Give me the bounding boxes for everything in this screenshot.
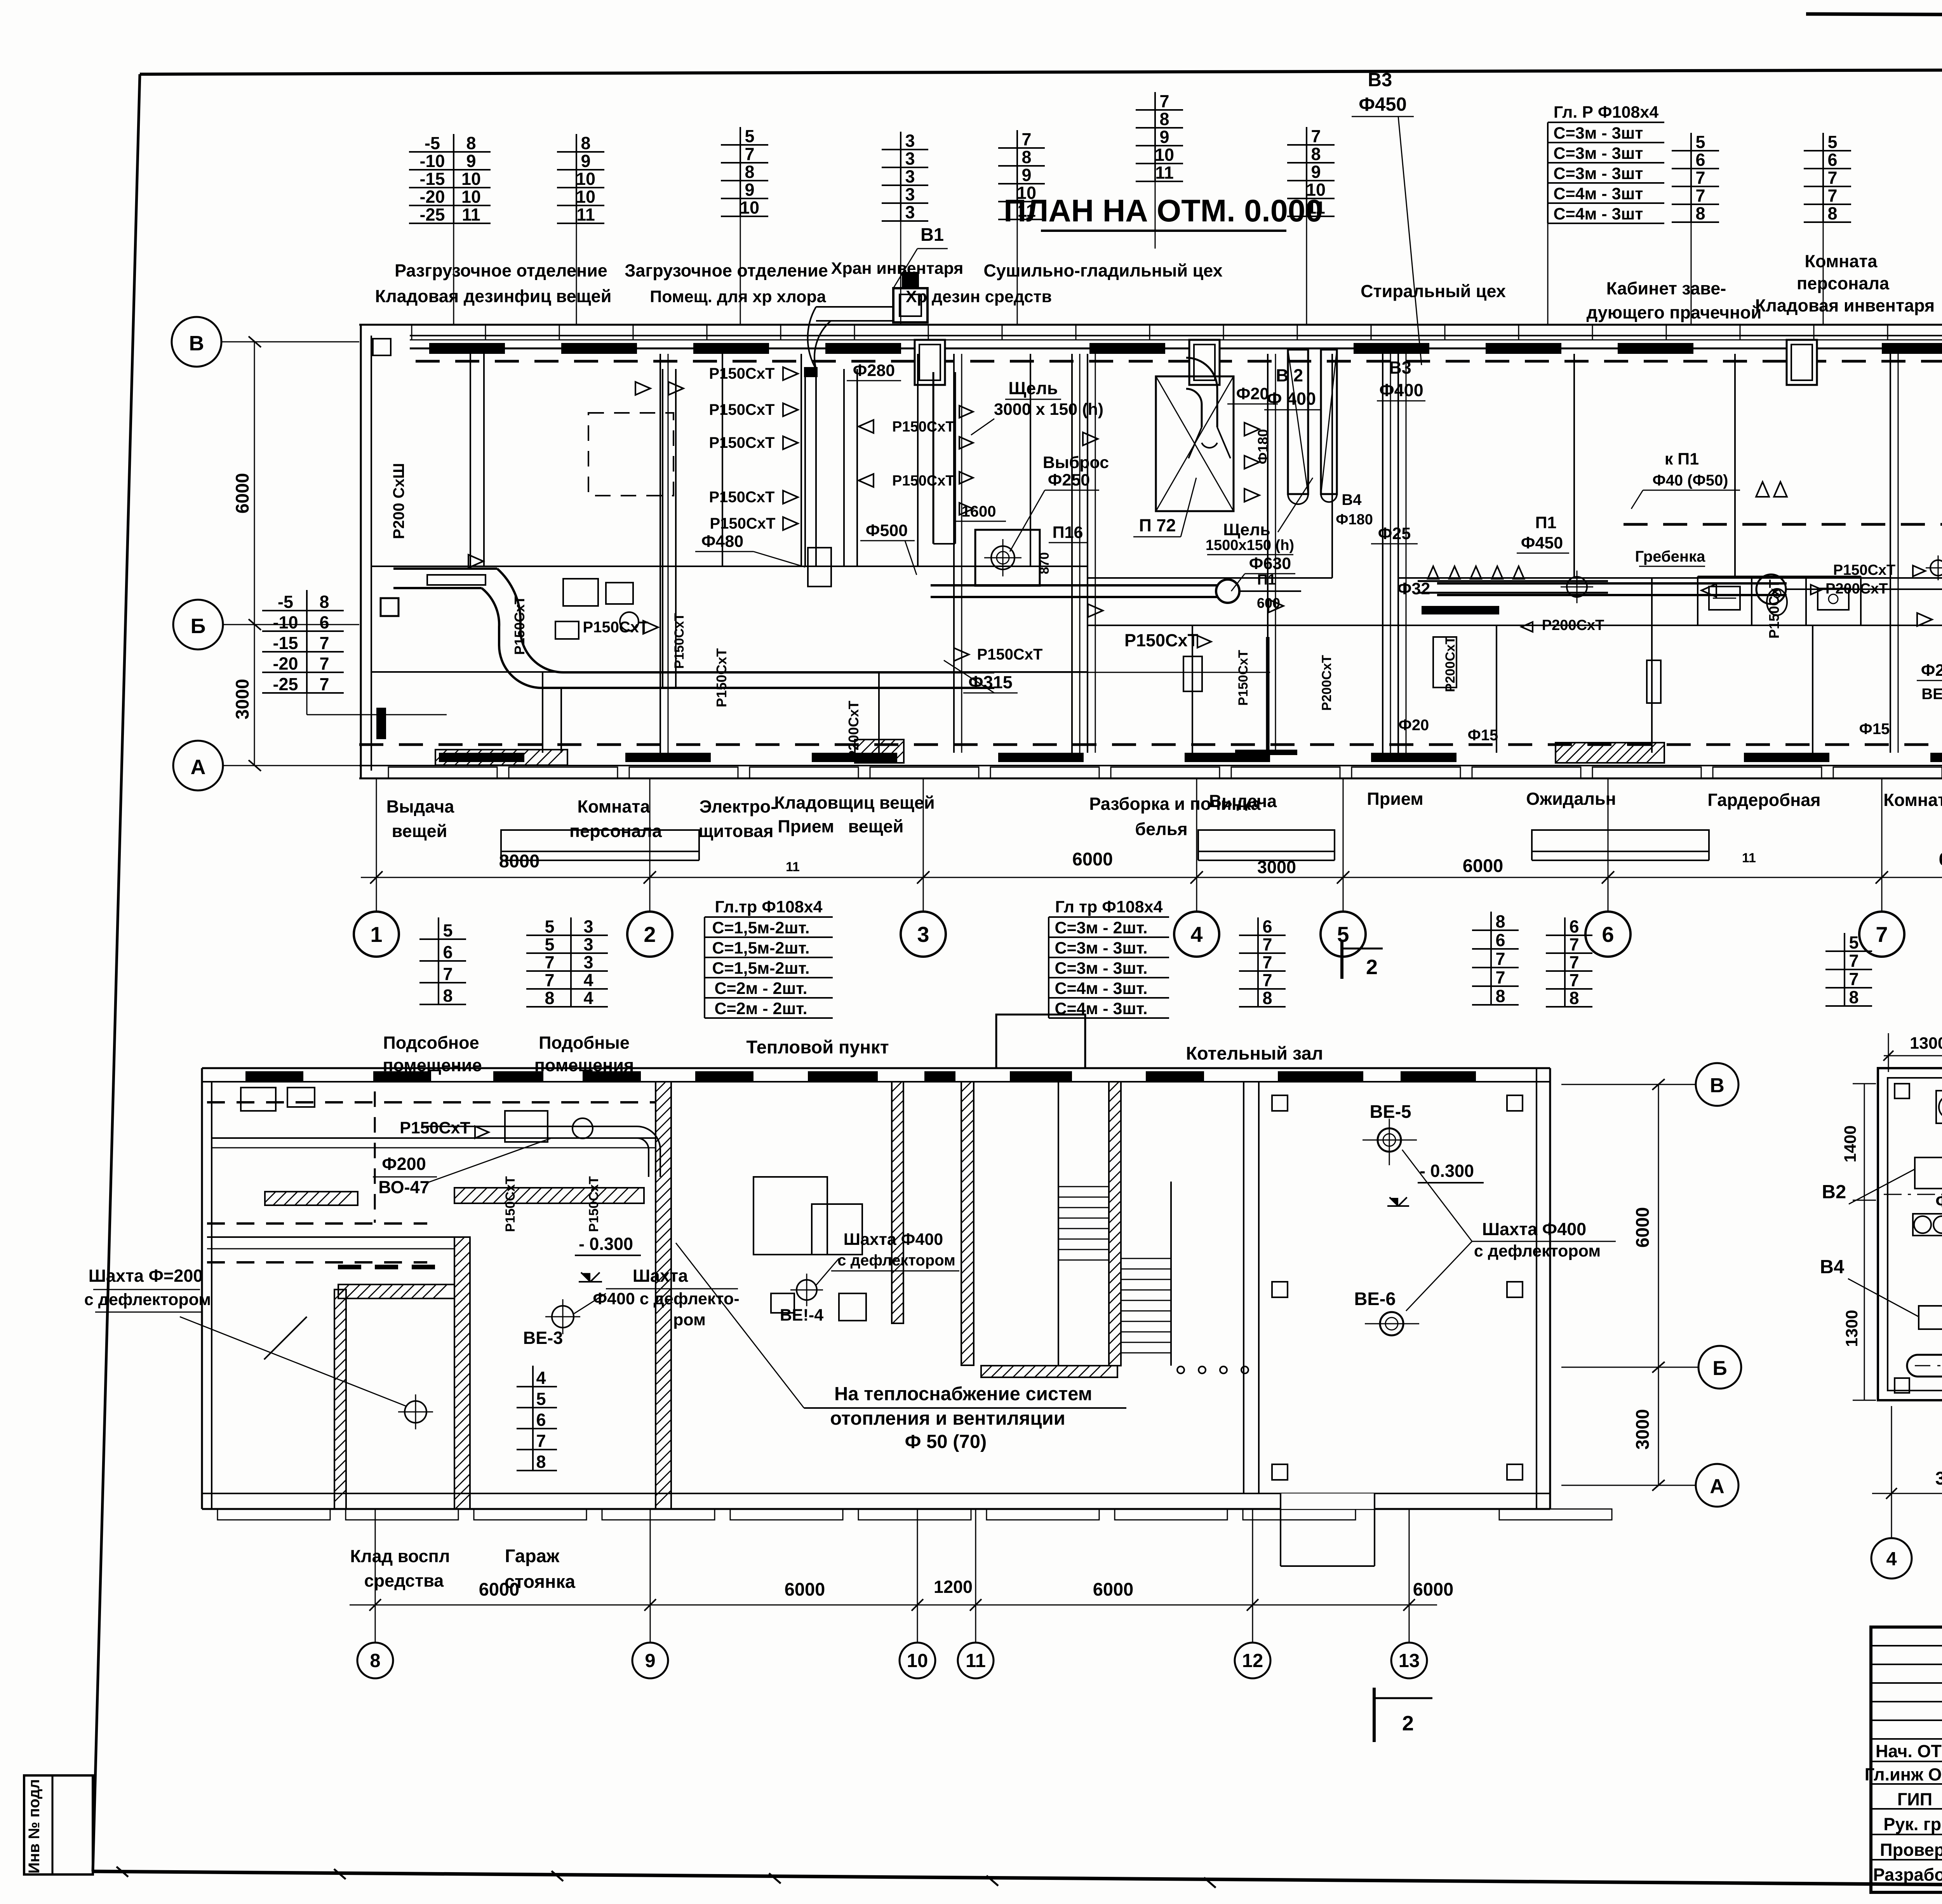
main floor plan 0.000 <box>359 324 1942 326</box>
dimension ladders above plan <box>409 151 491 153</box>
svg-text:8: 8 <box>745 162 754 182</box>
title block <box>1871 1627 1942 1892</box>
svg-text:1300: 1300 <box>1843 1310 1861 1347</box>
svg-text:Ф20: Ф20 <box>1399 717 1429 734</box>
svg-text:Гардеробная: Гардеробная <box>1707 790 1820 810</box>
svg-text:Ф450: Ф450 <box>1359 94 1407 115</box>
svg-text:7: 7 <box>1021 129 1031 149</box>
svg-text:Разгрузочное отделение: Разгрузочное отделение <box>395 261 607 280</box>
svg-text:А: А <box>1710 1475 1724 1498</box>
svg-text:С=3м - 2шт.: С=3м - 2шт. <box>1055 919 1147 937</box>
svg-text:7: 7 <box>745 144 754 164</box>
svg-text:-5: -5 <box>425 133 440 153</box>
svg-text:отопления и вентиляции: отопления и вентиляции <box>830 1408 1065 1429</box>
svg-text:6: 6 <box>1495 930 1505 950</box>
svg-text:Р150СхТ: Р150СхТ <box>586 1176 601 1232</box>
svg-text:С=3м - 3шт: С=3м - 3шт <box>1554 164 1643 183</box>
svg-text:Нач. ОТП: Нач. ОТП <box>1876 1741 1942 1761</box>
svg-text:Гл.тр Ф108х4: Гл.тр Ф108х4 <box>715 898 822 916</box>
svg-text:9: 9 <box>645 1650 655 1671</box>
svg-text:Р200СхТ: Р200СхТ <box>846 701 861 760</box>
svg-text:1400: 1400 <box>1841 1125 1860 1163</box>
svg-text:2: 2 <box>644 922 656 947</box>
svg-text:Прием: Прием <box>778 816 834 836</box>
B2 unit <box>1915 1157 1942 1189</box>
svg-text:С=3м - 3шт: С=3м - 3шт <box>1554 144 1643 163</box>
svg-text:10: 10 <box>461 187 481 207</box>
svg-text:3: 3 <box>583 935 593 954</box>
svg-text:7: 7 <box>1695 168 1705 188</box>
svg-text:ВЕ: ВЕ <box>1921 686 1942 703</box>
svg-text:11: 11 <box>462 205 480 225</box>
svg-text:7: 7 <box>1827 168 1837 188</box>
svg-text:Р150СхТ: Р150СхТ <box>1833 562 1896 578</box>
svg-text:П1: П1 <box>1535 513 1557 532</box>
svg-text:7: 7 <box>545 952 554 972</box>
column circles 8-13 <box>350 1605 1437 1606</box>
svg-text:3: 3 <box>905 202 915 222</box>
svg-text:В3: В3 <box>1389 358 1411 378</box>
svg-text:5: 5 <box>536 1389 546 1409</box>
svg-text:8: 8 <box>1569 988 1579 1008</box>
svg-text:-20: -20 <box>273 654 298 674</box>
svg-text:9: 9 <box>581 151 590 171</box>
svg-text:8000: 8000 <box>499 851 540 871</box>
svg-text:Загрузочное отделение: Загрузочное отделение <box>625 261 828 280</box>
svg-text:7: 7 <box>536 1431 546 1451</box>
svg-text:8: 8 <box>581 133 590 153</box>
svg-text:5: 5 <box>745 126 754 146</box>
svg-text:Б: Б <box>191 614 206 638</box>
svg-text:12: 12 <box>1242 1650 1263 1671</box>
stair vestibule protruding above <box>996 1015 1085 1068</box>
svg-text:3: 3 <box>905 149 915 169</box>
svg-text:ПЛАН НА ОТМ. 0.000: ПЛАН НА ОТМ. 0.000 <box>1004 193 1323 228</box>
svg-text:Ф315: Ф315 <box>968 672 1013 692</box>
svg-text:1600: 1600 <box>962 503 996 520</box>
svg-text:Ф250: Ф250 <box>1048 471 1090 489</box>
svg-text:11: 11 <box>1155 163 1174 183</box>
svg-text:11: 11 <box>576 205 595 225</box>
svg-text:-10: -10 <box>273 613 298 632</box>
svg-text:Гребенка: Гребенка <box>1635 548 1705 565</box>
svg-text:Р200СхТ: Р200СхТ <box>1443 636 1458 692</box>
svg-text:3000: 3000 <box>1257 857 1296 877</box>
svg-text:6000: 6000 <box>232 473 252 514</box>
svg-text:7: 7 <box>1876 922 1888 947</box>
svg-text:8: 8 <box>466 133 476 153</box>
lower-left plan <box>202 1067 1550 1069</box>
svg-text:Подсобное: Подсобное <box>383 1033 479 1053</box>
row markers В Б А <box>172 317 221 367</box>
svg-text:-10: -10 <box>419 151 445 171</box>
section mark 2 (top) <box>1340 940 1343 979</box>
svg-text:Хран инвентаря: Хран инвентаря <box>831 259 964 278</box>
bottom dimension line of top plan <box>361 877 1942 878</box>
svg-text:7: 7 <box>1311 126 1321 146</box>
corridor duct with S-bend <box>393 567 497 570</box>
svg-text:7: 7 <box>319 654 329 674</box>
svg-text:П16: П16 <box>1053 523 1083 542</box>
svg-text:7: 7 <box>545 970 554 990</box>
svg-text:10: 10 <box>1155 145 1174 165</box>
svg-text:Р150СхТ: Р150СхТ <box>710 515 776 532</box>
svg-text:Р150СхТ: Р150СхТ <box>400 1119 470 1137</box>
svg-text:Провер.: Провер. <box>1880 1840 1942 1860</box>
svg-text:3: 3 <box>583 952 593 972</box>
svg-text:В4: В4 <box>1342 491 1362 508</box>
bottom pipe <box>1907 1355 1942 1377</box>
svg-text:9: 9 <box>1021 165 1031 185</box>
svg-text:6: 6 <box>443 942 452 962</box>
svg-text:4: 4 <box>583 970 593 990</box>
svg-text:В 2: В 2 <box>1276 365 1303 385</box>
svg-text:10: 10 <box>740 198 759 218</box>
svg-text:с дефлектором: с дефлектором <box>84 1290 211 1309</box>
svg-text:Р150СхТ: Р150СхТ <box>892 419 955 435</box>
svg-text:3000: 3000 <box>1935 1468 1942 1488</box>
svg-text:щитовая: щитовая <box>699 821 774 841</box>
svg-text:Инв № подл: Инв № подл <box>26 1779 43 1873</box>
column circles 1-8 <box>376 877 377 912</box>
svg-text:вещей: вещей <box>392 821 447 841</box>
svg-text:8: 8 <box>1695 204 1705 223</box>
entrance porches <box>501 830 699 851</box>
svg-text:10: 10 <box>907 1650 928 1671</box>
svg-text:9: 9 <box>1311 162 1321 182</box>
svg-text:Котельный зал: Котельный зал <box>1186 1043 1323 1063</box>
svg-text:Тепловой пункт: Тепловой пункт <box>746 1037 889 1057</box>
svg-text:4: 4 <box>583 988 593 1008</box>
svg-text:С=4м - 3шт.: С=4м - 3шт. <box>1055 979 1147 998</box>
svg-text:С=4м - 3шт: С=4м - 3шт <box>1554 184 1643 203</box>
svg-text:Р150СхТ: Р150СхТ <box>672 613 687 669</box>
svg-text:9: 9 <box>1159 127 1169 147</box>
svg-text:Гл. Р Ф108х4: Гл. Р Ф108х4 <box>1554 103 1658 122</box>
svg-text:870: 870 <box>1037 552 1052 574</box>
svg-text:6000: 6000 <box>1093 1579 1134 1599</box>
svg-text:10: 10 <box>576 169 595 189</box>
svg-text:Комната: Комната <box>578 797 651 816</box>
svg-text:7: 7 <box>1849 969 1858 989</box>
svg-text:Кабинет заве-: Кабинет заве- <box>1606 278 1726 298</box>
svg-text:Ф400: Ф400 <box>1379 380 1423 400</box>
svg-text:11: 11 <box>786 860 800 874</box>
svg-text:-15: -15 <box>273 633 298 653</box>
svg-text:Ф20: Ф20 <box>1236 385 1269 403</box>
svg-text:ром: ром <box>673 1311 706 1329</box>
svg-text:персонала: персонала <box>1797 273 1890 293</box>
svg-text:Выдача: Выдача <box>1209 791 1277 811</box>
svg-text:Хр дезин средств: Хр дезин средств <box>906 287 1052 306</box>
svg-text:С=1,5м-2шт.: С=1,5м-2шт. <box>712 919 809 937</box>
svg-text:Ф180: Ф180 <box>1255 429 1271 465</box>
svg-text:7: 7 <box>443 964 452 984</box>
svg-text:Кладовщиц вещей: Кладовщиц вещей <box>774 793 934 813</box>
svg-text:Ф180: Ф180 <box>1336 512 1373 528</box>
svg-text:9: 9 <box>745 180 754 200</box>
svg-text:Кладовая дезинфиц вещей: Кладовая дезинфиц вещей <box>375 286 612 306</box>
svg-text:с дефлектором: с дефлектором <box>1474 1242 1601 1260</box>
svg-text:Р150СхТ: Р150СхТ <box>892 473 955 489</box>
svg-text:7: 7 <box>1262 970 1272 990</box>
svg-text:-20: -20 <box>419 187 445 207</box>
svg-text:5: 5 <box>443 921 452 940</box>
svg-text:Р200СхТ: Р200СхТ <box>1319 655 1334 711</box>
svg-text:ВЕ-5: ВЕ-5 <box>1369 1101 1411 1122</box>
svg-text:ВЕ-3: ВЕ-3 <box>523 1328 563 1348</box>
svg-text:Р150СхТ: Р150СхТ <box>503 1176 518 1232</box>
svg-text:Ф500: Ф500 <box>866 521 908 540</box>
svg-text:5: 5 <box>545 935 554 954</box>
svg-text:ГИП: ГИП <box>1897 1789 1932 1809</box>
svg-text:Щель: Щель <box>1223 520 1270 539</box>
svg-text:8: 8 <box>1495 986 1505 1006</box>
svg-text:6: 6 <box>1569 917 1579 936</box>
svg-text:4: 4 <box>1886 1549 1897 1570</box>
svg-text:6000: 6000 <box>1939 849 1942 869</box>
svg-text:7: 7 <box>1695 186 1705 205</box>
svg-text:Шахта Ф=200: Шахта Ф=200 <box>89 1266 203 1286</box>
svg-text:Ф15: Ф15 <box>1468 727 1498 744</box>
svg-text:6: 6 <box>1695 150 1705 170</box>
svg-text:вещей: вещей <box>848 816 904 836</box>
svg-text:7: 7 <box>319 633 329 653</box>
svg-text:3000 х 150 (h): 3000 х 150 (h) <box>994 400 1103 419</box>
svg-text:Ф400 с дефлекто-: Ф400 с дефлекто- <box>593 1290 739 1308</box>
svg-text:-15: -15 <box>419 169 445 189</box>
svg-text:к П1: к П1 <box>1665 450 1699 468</box>
svg-text:3000: 3000 <box>232 679 252 720</box>
svg-text:Выдача: Выдача <box>386 797 455 816</box>
svg-text:6: 6 <box>319 613 329 632</box>
svg-text:8: 8 <box>1021 147 1031 167</box>
svg-text:персонала: персонала <box>569 821 662 841</box>
svg-text:Щель: Щель <box>1008 378 1058 398</box>
svg-text:Шахта: Шахта <box>633 1266 688 1286</box>
svg-text:белья: белья <box>1135 819 1187 839</box>
svg-text:7: 7 <box>1827 186 1837 205</box>
svg-text:В3: В3 <box>1368 70 1392 91</box>
svg-text:7: 7 <box>1159 91 1169 111</box>
svg-text:11: 11 <box>1742 851 1756 865</box>
svg-text:ВЕ-6: ВЕ-6 <box>1354 1288 1396 1309</box>
svg-text:Р150СхТ: Р150СхТ <box>512 596 527 655</box>
svg-text:С=2м - 2шт.: С=2м - 2шт. <box>714 979 807 998</box>
svg-text:стоянка: стоянка <box>505 1571 576 1592</box>
svg-text:5: 5 <box>1827 132 1837 152</box>
svg-text:Подобные: Подобные <box>539 1033 630 1053</box>
sheet frame <box>140 68 1942 74</box>
svg-text:Шахта Ф400: Шахта Ф400 <box>844 1230 943 1249</box>
svg-text:В4: В4 <box>1820 1257 1845 1277</box>
svg-text:8: 8 <box>1311 144 1321 164</box>
svg-text:С=3м - 3шт.: С=3м - 3шт. <box>1055 939 1147 957</box>
svg-text:Гл.инж ОТП: Гл.инж ОТП <box>1865 1765 1942 1784</box>
svg-text:-25: -25 <box>273 674 298 694</box>
svg-text:6: 6 <box>1262 917 1272 936</box>
svg-text:Р150СхТ: Р150СхТ <box>709 489 775 506</box>
svg-text:Выброс: Выброс <box>1043 453 1109 472</box>
svg-text:- 0.300: - 0.300 <box>579 1234 633 1254</box>
svg-text:11: 11 <box>966 1650 986 1671</box>
svg-text:Р150СхТ: Р150СхТ <box>977 646 1043 663</box>
svg-text:8: 8 <box>1495 912 1505 931</box>
svg-text:Ф 50 (70): Ф 50 (70) <box>905 1431 987 1452</box>
svg-text:13: 13 <box>1399 1650 1420 1671</box>
svg-text:Р150СхТ: Р150СхТ <box>1236 650 1251 706</box>
svg-text:Ф280: Ф280 <box>853 361 895 380</box>
svg-text:6000: 6000 <box>1632 1207 1653 1248</box>
svg-text:Сушильно-гладильный цех: Сушильно-гладильный цех <box>983 261 1222 280</box>
svg-text:5: 5 <box>545 917 554 936</box>
svg-text:Р150СхТ: Р150СхТ <box>709 401 775 418</box>
svg-text:С=3м - 3шт: С=3м - 3шт <box>1554 124 1643 143</box>
svg-text:Комната: Комната <box>1805 251 1878 271</box>
svg-text:5: 5 <box>1695 132 1705 152</box>
svg-text:6: 6 <box>536 1410 546 1430</box>
inventory stamp bottom-left <box>24 1775 93 1874</box>
svg-text:Гл тр Ф108х4: Гл тр Ф108х4 <box>1055 898 1162 916</box>
svg-text:Р200СхТ: Р200СхТ <box>1542 617 1604 634</box>
svg-text:7: 7 <box>1569 935 1579 954</box>
svg-text:А: А <box>191 755 206 779</box>
svg-text:Прием: Прием <box>1367 789 1423 809</box>
svg-text:10: 10 <box>576 187 595 207</box>
svg-text:7: 7 <box>319 674 329 694</box>
svg-text:4: 4 <box>536 1368 546 1388</box>
svg-text:1: 1 <box>370 922 382 947</box>
svg-text:с дефлектором: с дефлектором <box>837 1252 955 1269</box>
svg-text:В: В <box>189 332 204 355</box>
svg-text:2: 2 <box>1366 955 1378 979</box>
svg-text:Р200СхТ: Р200СхТ <box>1825 581 1888 597</box>
svg-text:2: 2 <box>1402 1712 1414 1735</box>
svg-text:Р150СхТ: Р150СхТ <box>1124 630 1198 650</box>
svg-text:8: 8 <box>536 1452 546 1472</box>
svg-text:Ф450: Ф450 <box>1521 534 1563 552</box>
svg-text:4: 4 <box>1190 922 1202 947</box>
svg-text:7: 7 <box>1495 949 1505 969</box>
svg-text:Электро-: Электро- <box>700 797 776 816</box>
svg-text:Р150СхТ: Р150СхТ <box>1766 580 1782 639</box>
svg-text:Ожидальн: Ожидальн <box>1526 789 1616 809</box>
svg-text:ВЕ!-4: ВЕ!-4 <box>780 1306 823 1324</box>
svg-text:5: 5 <box>1849 933 1858 952</box>
section mark 2 (bottom) <box>1373 1688 1376 1742</box>
svg-text:ВО-47: ВО-47 <box>378 1177 429 1197</box>
svg-text:Помещ. для хр хлора: Помещ. для хр хлора <box>650 287 826 306</box>
svg-text:Клад воспл: Клад воспл <box>350 1546 450 1566</box>
fan unit <box>1936 1091 1942 1123</box>
svg-text:Ф480: Ф480 <box>701 532 743 551</box>
svg-text:Стиральный цех: Стиральный цех <box>1361 281 1506 301</box>
svg-text:3: 3 <box>583 917 593 936</box>
svg-text:3: 3 <box>917 922 929 947</box>
svg-text:8: 8 <box>319 592 329 612</box>
svg-text:10: 10 <box>461 169 481 189</box>
svg-text:3: 3 <box>905 131 915 151</box>
svg-text:7: 7 <box>1569 970 1579 990</box>
svg-text:Шахта Ф400: Шахта Ф400 <box>1482 1219 1586 1239</box>
svg-text:8: 8 <box>1827 204 1837 223</box>
svg-text:6000: 6000 <box>1072 849 1113 869</box>
ladders and tables below plan <box>419 938 466 940</box>
svg-text:С=1,5м-2шт.: С=1,5м-2шт. <box>712 939 809 957</box>
svg-text:Ф40 (Ф50): Ф40 (Ф50) <box>1652 472 1728 489</box>
svg-text:П1: П1 <box>1257 572 1276 588</box>
svg-text:1300: 1300 <box>1910 1034 1942 1053</box>
svg-text:8: 8 <box>545 988 554 1008</box>
svg-text:6000: 6000 <box>785 1579 825 1599</box>
svg-text:7: 7 <box>1262 935 1272 954</box>
svg-text:7: 7 <box>1495 968 1505 987</box>
svg-text:8: 8 <box>1262 988 1272 1008</box>
svg-text:3: 3 <box>905 167 915 186</box>
svg-text:В1: В1 <box>921 224 944 245</box>
svg-text:Р150СхТ: Р150СхТ <box>709 365 775 382</box>
svg-text:Б: Б <box>1712 1357 1727 1380</box>
svg-text:7: 7 <box>1262 952 1272 972</box>
svg-text:8: 8 <box>370 1650 380 1671</box>
svg-text:С=1,5м-2шт.: С=1,5м-2шт. <box>712 959 809 978</box>
svg-text:8: 8 <box>1159 109 1169 129</box>
svg-text:В: В <box>1710 1074 1724 1097</box>
svg-text:Р150СхТ: Р150СхТ <box>713 648 729 707</box>
svg-text:Ф25: Ф25 <box>1378 524 1411 543</box>
svg-text:Р200 СхШ: Р200 СхШ <box>390 463 407 539</box>
svg-text:Рук. гр.: Рук. гр. <box>1883 1814 1942 1834</box>
svg-text:дующего прачечной: дующего прачечной <box>1587 303 1762 322</box>
svg-text:7: 7 <box>1849 951 1858 971</box>
svg-text:Р150СхТ: Р150СхТ <box>709 434 775 451</box>
svg-text:Ф15: Ф15 <box>1859 721 1890 738</box>
svg-text:Кладовая инвентаря: Кладовая инвентаря <box>1755 296 1935 315</box>
svg-text:Ф 400: Ф 400 <box>1267 389 1316 409</box>
svg-text:Ф200: Ф200 <box>1921 661 1942 680</box>
svg-text:6: 6 <box>1602 922 1614 947</box>
svg-text:3000: 3000 <box>1632 1409 1653 1450</box>
svg-text:Ф200: Ф200 <box>382 1154 426 1174</box>
svg-text:Комната персонала: Комната персонала <box>1883 790 1942 810</box>
svg-text:600: 600 <box>1257 595 1280 611</box>
svg-text:С=3м - 3шт.: С=3м - 3шт. <box>1055 959 1147 978</box>
svg-text:С=2м - 2шт.: С=2м - 2шт. <box>714 999 807 1018</box>
svg-text:Ф630: Ф630 <box>1249 554 1291 573</box>
svg-text:-25: -25 <box>419 205 445 225</box>
svg-text:- 0.300: - 0.300 <box>1420 1161 1474 1181</box>
svg-text:6000: 6000 <box>1413 1579 1454 1599</box>
svg-text:6000: 6000 <box>1463 855 1503 876</box>
svg-text:На теплоснабжение систем: На теплоснабжение систем <box>834 1384 1092 1405</box>
svg-text:Разработ.: Разработ. <box>1873 1865 1942 1885</box>
svg-text:8: 8 <box>1849 987 1858 1007</box>
svg-text:П 72: П 72 <box>1139 515 1176 535</box>
svg-text:1500х150 (h): 1500х150 (h) <box>1206 537 1294 553</box>
svg-text:1200: 1200 <box>934 1577 973 1597</box>
svg-text:Гараж: Гараж <box>505 1545 560 1566</box>
svg-text:3: 3 <box>905 184 915 204</box>
svg-text:7: 7 <box>1569 952 1579 972</box>
svg-text:9: 9 <box>466 151 476 171</box>
svg-text:Ф400: Ф400 <box>1935 1191 1942 1211</box>
svg-text:В2: В2 <box>1822 1182 1846 1203</box>
svg-text:8: 8 <box>443 986 452 1006</box>
svg-text:С=4м - 3шт: С=4м - 3шт <box>1554 205 1643 223</box>
svg-text:-5: -5 <box>278 592 293 612</box>
svg-text:Ф32: Ф32 <box>1397 580 1430 598</box>
svg-text:6: 6 <box>1827 150 1837 170</box>
